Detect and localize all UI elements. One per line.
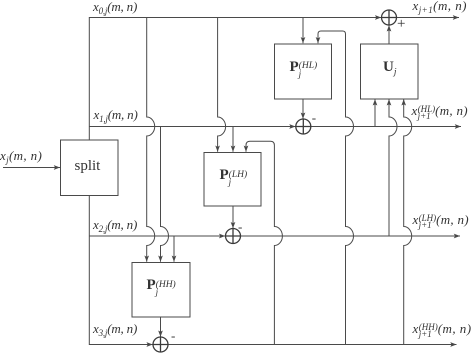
wire HH tap to U (hops x1,x2 rows) [404, 99, 412, 344]
wire x1 row to adder A2 [89, 126, 295, 128]
sign - at A2 [312, 111, 316, 124]
adder A4 [153, 337, 168, 352]
wire HH band to P_HL (hops x1,x2 rows) [318, 31, 354, 345]
label x_{j+1}^{(HL)}(m,n) output [412, 104, 468, 120]
label P_j^{(HL)} [290, 60, 318, 79]
wire x1 tap to P_LH [232, 127, 234, 152]
sign - at A3 [238, 220, 242, 233]
wire P_LH output to A3 [232, 206, 234, 228]
wire x0 tap to P_HL [302, 18, 304, 44]
P_HL box [275, 44, 332, 99]
wire P_HH output to A4 [160, 317, 162, 337]
wire x_{j+1} output after A1 [397, 17, 460, 19]
adder A2 [296, 119, 311, 134]
wire x0 to P_LH (hops x1 row) [218, 18, 226, 152]
label x_{0,j}(m,n) [93, 0, 137, 13]
label x_j(m,n) input [0, 149, 42, 162]
label P_j^{(LH)} [220, 168, 248, 187]
wire x1 to P_HH (hops x2 row) [161, 127, 169, 262]
wire input x_j into split [3, 167, 60, 169]
label U_j [383, 60, 396, 78]
label P_j^{(HH)} [147, 278, 176, 297]
sign + at A1 [397, 17, 405, 32]
label x_{2,j}(m,n) [93, 218, 137, 231]
wire x2 tap to P_HH [173, 236, 175, 262]
U box [361, 44, 419, 99]
wire U output to A1 [388, 25, 390, 44]
label x_{j+1}(m,n) output [413, 0, 467, 12]
P_HH box [132, 263, 190, 318]
P_LH box [204, 153, 261, 207]
wire HL tap to U [374, 99, 376, 126]
wire x0 to P_HH (hops x1,x2 rows) [147, 18, 155, 262]
wire LH tap to U (hops x1 row) [389, 99, 397, 236]
adder A3 [226, 229, 241, 244]
label x_{1,j}(m,n) [94, 108, 138, 121]
wire P_HL output to A2 [302, 99, 304, 119]
adder A1 [382, 10, 397, 25]
label x_{j+1}^{(LH)}(m,n) output [413, 213, 469, 229]
wire HH output after A4 [168, 344, 457, 346]
wire x2 row to adder A3 [89, 235, 225, 237]
label x_{j+1}^{(HH)}(m,n) output [413, 322, 472, 338]
label split box [75, 159, 101, 174]
split box [61, 140, 119, 196]
label x_{3,j}(m,n) [93, 322, 137, 335]
sign - at A4 [171, 329, 175, 342]
wire trunk lower + x3 row to adder A4 [89, 196, 152, 345]
wire trunk upper + x0 row to adder A1 [89, 18, 381, 141]
wire HL output after A2 [311, 126, 461, 128]
wire HH band to P_LH (hops x2 row) [246, 141, 282, 344]
wire LH output after A3 [241, 235, 461, 237]
